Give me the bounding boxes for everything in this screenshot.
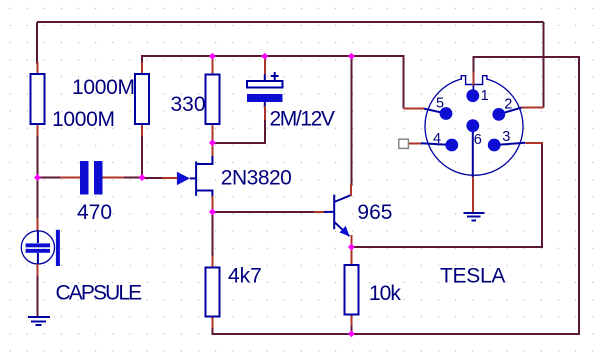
transistor Q2 collector lead — [350, 184, 352, 196]
node source — [209, 208, 216, 215]
node rail-cap2M — [261, 53, 268, 60]
jfet Q1 source lead — [211, 196, 213, 212]
pin 4 — [445, 139, 458, 152]
pin 6 lead — [472, 127, 474, 213]
transistor Q2 emitter arrow — [340, 226, 350, 236]
resistor R1 1000M — [31, 74, 45, 124]
pin 1 — [466, 89, 479, 102]
svg-text:5: 5 — [436, 95, 444, 111]
pin 3 lead — [494, 143, 543, 145]
wire second rail — [142, 56, 404, 109]
pin 2 lead — [499, 108, 544, 115]
wire 10k bottom lead — [350, 322, 352, 334]
jfet Q1 gate arrow — [177, 172, 190, 185]
transistor Q2 965 body — [324, 195, 351, 237]
wire top rail V+ — [37, 21, 544, 23]
wire emitter node to pin 3 — [351, 143, 542, 247]
no-connect square pin 4 — [399, 139, 409, 148]
plus sign C2 — [271, 72, 279, 80]
svg-text:1000M: 1000M — [72, 76, 135, 99]
transistor Q2 emitter lead — [350, 235, 352, 248]
wire node A down to capsule — [37, 178, 39, 221]
svg-text:CAPSULE: CAPSULE — [56, 282, 143, 305]
wire cap 2M bottom branch — [212, 116, 264, 143]
wire node A to 470 left — [38, 132, 63, 178]
capacitor C2 2M/12V symbol — [247, 74, 283, 108]
resistor R1 1000M leads — [37, 62, 39, 136]
svg-text:965: 965 — [357, 201, 392, 224]
capacitor C1 470 leads — [60, 177, 124, 179]
capsule MIC symbol — [21, 230, 60, 266]
node bottom-10k — [348, 330, 355, 337]
svg-text:2M/12V: 2M/12V — [270, 108, 335, 131]
pin 4 lead — [408, 143, 451, 145]
resistor R2 1000M — [135, 74, 149, 124]
jfet Q1 2N3820 body — [190, 156, 213, 198]
wire 470 right to gate node — [120, 134, 142, 178]
svg-text:4k7: 4k7 — [228, 265, 262, 288]
pin 2 — [492, 108, 505, 121]
svg-text:6: 6 — [474, 132, 482, 148]
capsule top lead — [37, 218, 39, 231]
jfet Q1 gate lead — [162, 177, 178, 179]
svg-text:330: 330 — [171, 93, 206, 116]
resistor R5 10k leads — [350, 249, 352, 326]
wire source node down to 4k7 — [211, 212, 213, 258]
wire collector up to rail — [350, 56, 352, 186]
node rail-330 — [209, 53, 216, 60]
resistor R3 330 leads — [211, 58, 213, 134]
wire R3 bottom to drain junction — [211, 132, 213, 143]
node drain — [209, 139, 216, 146]
svg-text:1: 1 — [481, 88, 489, 104]
pin 3 — [488, 139, 501, 152]
svg-text:10k: 10k — [369, 282, 401, 305]
pin 1 lead — [472, 57, 474, 91]
capacitor C2 2M/12V top lead — [264, 58, 266, 74]
transistor Q2 965 base lead — [314, 211, 326, 213]
svg-text:TESLA: TESLA — [440, 264, 505, 287]
svg-text:3: 3 — [502, 129, 510, 145]
wire source node to base — [212, 211, 316, 213]
wire gate node to JFET gate — [142, 177, 164, 179]
wire 10k top lead — [350, 247, 352, 256]
pin 5 lead — [404, 109, 447, 114]
svg-text:2: 2 — [504, 96, 512, 112]
capacitor C2 bottom lead — [264, 106, 266, 120]
resistor R5 10k — [344, 265, 358, 315]
svg-text:470: 470 — [77, 201, 112, 224]
wire left drop to R1 — [36, 22, 38, 64]
node gate — [139, 174, 146, 181]
pin 6 — [466, 119, 479, 132]
resistor R4 4k7 — [205, 267, 219, 316]
wire bottom rail — [212, 57, 579, 334]
jfet Q1 2N3820 drain lead — [211, 143, 213, 158]
resistor R2 1000M leads — [141, 62, 143, 136]
resistor R4 4k7 leads — [211, 256, 213, 328]
connector X1 DIN circle — [425, 77, 523, 175]
node rail-collector — [348, 53, 355, 60]
node emitter — [348, 244, 355, 251]
ground GND1 capsule — [28, 317, 50, 325]
pin 5 — [440, 107, 453, 120]
capsule bottom lead — [37, 264, 39, 276]
svg-text:1000M: 1000M — [52, 108, 115, 131]
node A left — [34, 174, 41, 181]
svg-text:4: 4 — [433, 131, 441, 147]
ground GND2 connector — [464, 213, 485, 221]
svg-text:2N3820: 2N3820 — [221, 167, 292, 190]
resistor R3 330 — [206, 75, 220, 125]
wire capsule to ground — [37, 274, 39, 317]
junction node dots — [34, 53, 355, 338]
capacitor C1 470 plates — [80, 161, 102, 195]
wire right drop to pin 2 — [543, 22, 545, 108]
connector X1 notch — [462, 69, 486, 84]
